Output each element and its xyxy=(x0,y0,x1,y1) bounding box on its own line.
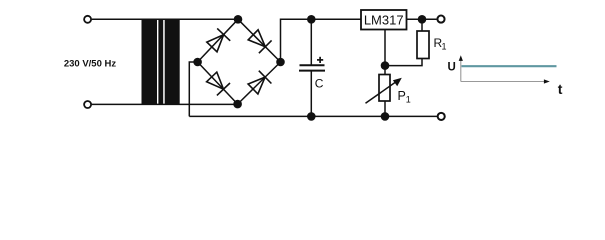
wire: bridge edge left-bottom xyxy=(198,62,238,104)
node: capacitor bottom junction xyxy=(307,112,316,121)
label: + polarity of C xyxy=(317,59,323,61)
svg-text:LM317: LM317 xyxy=(364,12,404,27)
wire: bridge edge left-top xyxy=(198,19,238,62)
op-amp U1 LM317 regulator box xyxy=(361,10,407,30)
terminal J3 (output +) xyxy=(437,16,444,23)
node: bridge DC plus (right) junction xyxy=(276,58,285,67)
diode D4 (bridge lower-right, anode bottom node, cathode right node) xyxy=(248,71,271,94)
resistor R1 xyxy=(417,31,429,59)
terminal J2 (mains input, bottom) xyxy=(84,101,91,108)
graph voltage axis (vertical with up arrow) xyxy=(459,55,463,81)
wire: capacitor bottom lead xyxy=(310,71,312,117)
wire: bridge edge bottom-right xyxy=(238,62,281,104)
wire: P1 bottom lead to bottom rail xyxy=(384,101,386,116)
wire: R1 bottom lead to adj node xyxy=(385,59,422,66)
transformer T1 primary winding xyxy=(142,19,158,104)
wire: LM317 adjust pin down to adj node xyxy=(384,30,386,66)
svg-text:P: P xyxy=(398,89,406,103)
diode D2 (bridge upper-right, anode top node, cathode right node) xyxy=(248,30,271,53)
transformer T1 secondary winding xyxy=(165,19,180,104)
graph time axis (horizontal with right arrow) xyxy=(461,79,550,83)
wire: LM317 output to output terminal xyxy=(407,18,437,20)
svg-text:1: 1 xyxy=(442,42,447,52)
diode D3 (bridge lower-left, anode left node, cathode bottom node) xyxy=(207,72,230,95)
graph: constant DC output voltage trace xyxy=(462,65,557,67)
wire: bridge + output riser and top rail to LM317 input xyxy=(281,19,362,62)
wire: bridge edge top-right xyxy=(238,19,281,62)
node: P1 bottom junction xyxy=(381,112,390,121)
wire: P1 top lead xyxy=(384,66,386,75)
terminal J1 (mains input, top) xyxy=(84,16,91,23)
node: bridge AC top junction xyxy=(234,15,243,24)
wire: bridge - output to bottom rail xyxy=(189,62,197,116)
diode D1 (bridge upper-left, anode left node, cathode top node) xyxy=(207,28,230,51)
terminal J4 (output -) xyxy=(438,113,445,120)
potentiometer P1 body xyxy=(379,75,390,102)
potentiometer P1 adjustment arrow xyxy=(366,78,402,104)
wire: bottom rail (0 V) xyxy=(189,115,437,117)
node: R1 top junction xyxy=(418,15,427,24)
wire: bottom input terminal to transformer primary bottom xyxy=(92,103,238,105)
node: bridge DC minus (left) junction xyxy=(193,58,202,67)
transformer T1 core xyxy=(158,19,163,104)
capacitor C1 plates xyxy=(300,64,325,66)
svg-text:t: t xyxy=(558,81,563,97)
node: adjust junction xyxy=(381,61,390,70)
node: bridge AC bottom junction xyxy=(233,100,242,109)
svg-text:230 V/50 Hz: 230 V/50 Hz xyxy=(64,59,117,70)
svg-text:C: C xyxy=(315,77,324,91)
svg-text:U: U xyxy=(448,62,456,74)
wire: capacitor top lead xyxy=(310,19,312,65)
wire: top input terminal to transformer primary top xyxy=(92,18,238,20)
wire: R1 top lead from output rail xyxy=(421,19,423,31)
svg-text:1: 1 xyxy=(406,95,411,105)
node: capacitor top junction xyxy=(307,15,316,24)
